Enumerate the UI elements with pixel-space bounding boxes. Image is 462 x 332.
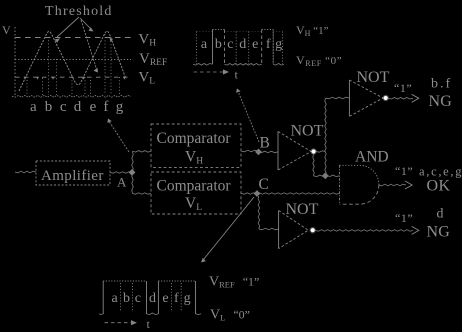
wire t axis of C waveform: [105, 322, 133, 324]
svg-text:f: f: [103, 99, 108, 115]
svg-text:g: g: [116, 99, 124, 115]
svg-text:VREF “0”: VREF “0”: [296, 53, 342, 68]
node VREF line: [15, 59, 131, 61]
svg-text:AND: AND: [355, 148, 389, 165]
arrow from node B to output waveform: [239, 93, 260, 143]
svg-text:a,c,e,g: a,c,e,g: [419, 165, 462, 179]
wire bus to NOT1 input: [326, 97, 350, 99]
svg-text:b: b: [215, 37, 222, 52]
svg-text:d: d: [239, 37, 246, 52]
output waveform at node B: cell boundaries: [196, 32, 282, 65]
output waveform at node C: pulse tops: [103, 280, 146, 282]
arrow from node C to lower waveform: [204, 197, 255, 260]
threshold long arrow to valley crossing: [81, 20, 97, 69]
signal waveform at node A: [19, 31, 126, 91]
comparator VH box: [151, 124, 241, 167]
svg-text:a: a: [30, 99, 37, 115]
VL tick marks: [24, 38, 127, 80]
output waveform at node B: pulse b edges: [212, 30, 214, 65]
svg-text:g: g: [184, 291, 191, 306]
comparator VL box: [151, 172, 241, 214]
output waveform at node B: pulse tops: [213, 29, 225, 31]
svg-text:t: t: [235, 68, 239, 82]
svg-text:NOT: NOT: [291, 123, 324, 140]
svg-text:B: B: [260, 135, 270, 152]
svg-text:VH “1”: VH “1”: [296, 23, 329, 38]
svg-text:VH: VH: [138, 32, 156, 49]
output waveform at node C: pulse edges: [102, 281, 104, 314]
svg-text:VL: VL: [138, 69, 155, 86]
node VH threshold line: [15, 37, 131, 39]
svg-text:b.f: b.f: [431, 77, 452, 92]
node V axis of analog graph: [14, 27, 16, 96]
svg-text:c: c: [135, 291, 141, 306]
svg-text:VL: VL: [185, 195, 202, 213]
wire NOT3 output arrow: [315, 230, 413, 232]
wire NOT2 bubble to bus: [316, 151, 326, 152]
svg-text:NOT: NOT: [286, 201, 319, 218]
svg-text:C: C: [259, 176, 269, 193]
svg-text:e: e: [162, 291, 168, 306]
svg-text:A: A: [117, 175, 127, 190]
svg-text:e: e: [252, 37, 258, 52]
node B junction: [255, 149, 262, 156]
AND gate: [339, 165, 341, 204]
svg-text:NG: NG: [429, 93, 453, 110]
svg-text:g: g: [275, 37, 282, 52]
node VL threshold line: [15, 76, 131, 78]
NOT gate U1 top: [348, 80, 350, 116]
svg-text:t: t: [147, 317, 151, 331]
wire comparator VH to node B: [241, 150, 258, 152]
svg-text:d: d: [74, 99, 82, 115]
svg-text:“1”: “1”: [394, 81, 412, 95]
wire node C down and right to NOT3: [258, 196, 260, 229]
svg-text:f: f: [174, 291, 179, 306]
svg-text:d: d: [437, 207, 444, 222]
threshold arrow to peak 2: [80, 18, 92, 30]
svg-text:Amplifier: Amplifier: [41, 168, 104, 184]
svg-text:c: c: [227, 37, 233, 52]
svg-text:“1”: “1”: [395, 164, 413, 178]
wire node A up to comparator VH: [132, 151, 133, 172]
svg-text:VH: VH: [185, 149, 203, 167]
wire node B to NOT2: [258, 151, 278, 153]
svg-text:Threshold: Threshold: [45, 4, 113, 19]
wire bubble down to junction row: [313, 155, 314, 176]
output waveform at node C: cell separators: [121, 283, 182, 312]
wire amplifier to node A: [110, 172, 132, 173]
wire input to amplifier: [15, 171, 36, 173]
svg-text:OK: OK: [427, 178, 451, 195]
arrow from node A to analog graph: [110, 122, 130, 152]
node C junction: [254, 190, 261, 197]
output waveform at node B: faint top frame: [196, 31, 282, 33]
wire AND output arrow: [379, 184, 406, 186]
output waveform at node C: low level baseline: [99, 313, 201, 315]
wire gridlines of analog graph: [27, 34, 120, 95]
svg-text:e: e: [90, 99, 97, 115]
node A junction: [129, 169, 136, 176]
wire t axis of B waveform: [194, 71, 224, 73]
svg-text:b: b: [45, 99, 53, 115]
svg-text:V: V: [2, 23, 11, 37]
svg-text:a: a: [201, 37, 208, 52]
labels of B waveform letters: [201, 37, 282, 52]
threshold arrow to peak 1: [57, 17, 79, 37]
wire node A down to comparator VL: [132, 173, 133, 194]
svg-text:“1”: “1”: [395, 211, 413, 225]
labels abcdefg under graph: [30, 99, 124, 115]
wire NOT1 output arrow: [388, 98, 413, 100]
wire comparator VL through node C to AND: [241, 193, 339, 194]
svg-text:NG: NG: [427, 224, 451, 241]
wire x axis zigzag of analog graph: [12, 95, 131, 97]
svg-text:f: f: [266, 37, 271, 52]
labels of C waveform letters: [111, 291, 190, 306]
svg-text:Comparator: Comparator: [157, 178, 232, 195]
wire junction row to AND top input: [314, 175, 340, 177]
svg-text:VL“0”: VL“0”: [210, 308, 250, 323]
svg-text:a: a: [111, 291, 118, 306]
output waveform at node B: low level baseline: [193, 64, 284, 66]
svg-text:VREF: VREF: [139, 51, 167, 68]
NOT gate U2 middle: [277, 131, 279, 170]
wire vertical bus: [325, 98, 326, 176]
svg-text:VREF“1”: VREF“1”: [209, 275, 259, 290]
svg-text:c: c: [60, 99, 67, 115]
NOT gate U3 bottom: [278, 211, 280, 249]
svg-text:d: d: [149, 291, 156, 306]
svg-text:NOT: NOT: [357, 69, 390, 86]
svg-text:Comparator: Comparator: [157, 130, 232, 147]
amplifier box: [36, 161, 110, 185]
svg-text:b: b: [123, 291, 130, 306]
output waveform at node B: pulse f edges: [261, 30, 263, 65]
junction diamond before AND: [322, 172, 329, 179]
